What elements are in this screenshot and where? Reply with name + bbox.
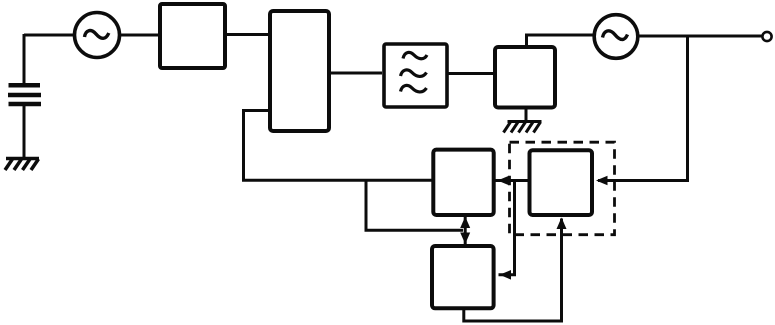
- wire block C bottom to block B bottom: [464, 219, 562, 322]
- wire block1 to block2: [227, 33, 268, 36]
- capacitor C1: [8, 85, 41, 104]
- arrow down into C top: [460, 233, 470, 245]
- AC source G1: [75, 13, 120, 58]
- wire A to B with arrow into A: [495, 179, 529, 182]
- wire filter to block D: [447, 72, 493, 75]
- filter F1: [384, 44, 447, 107]
- arrowhead into block A right: [498, 176, 510, 186]
- wire node down to capacitor: [23, 34, 26, 84]
- arrow up into B bottom: [557, 218, 567, 230]
- feedback wire from output down to block B: [598, 36, 688, 181]
- block 1: [160, 4, 225, 68]
- arrowhead into block C right: [500, 270, 512, 280]
- wire source G2 to output terminal: [639, 35, 763, 38]
- AC source G2: [594, 15, 638, 59]
- block D: [495, 47, 555, 108]
- block C: [432, 246, 494, 308]
- wire input node to source: [24, 34, 74, 37]
- ground: [5, 159, 39, 171]
- arrowhead into block B right: [596, 176, 608, 186]
- vertical link A-C with two arrows: [464, 216, 467, 245]
- wire block D to ground: [525, 109, 528, 121]
- block 2 (tall): [270, 11, 329, 131]
- arrow up into A bottom: [460, 217, 470, 229]
- wire source to block 1: [120, 34, 159, 37]
- ground under block D: [504, 122, 542, 133]
- wire block2 to filter: [331, 72, 382, 75]
- wire from A-B link down to block C right: [499, 181, 515, 275]
- block A: [433, 150, 493, 215]
- dashed block (PLL): [510, 142, 615, 235]
- branch bus down to coupling node: [366, 180, 463, 230]
- output terminal: [762, 32, 771, 41]
- wire capacitor to ground: [23, 106, 26, 157]
- wire block2 left down to main bus: [244, 111, 433, 181]
- block B: [530, 150, 593, 215]
- wire block D top to source G2: [527, 35, 594, 47]
